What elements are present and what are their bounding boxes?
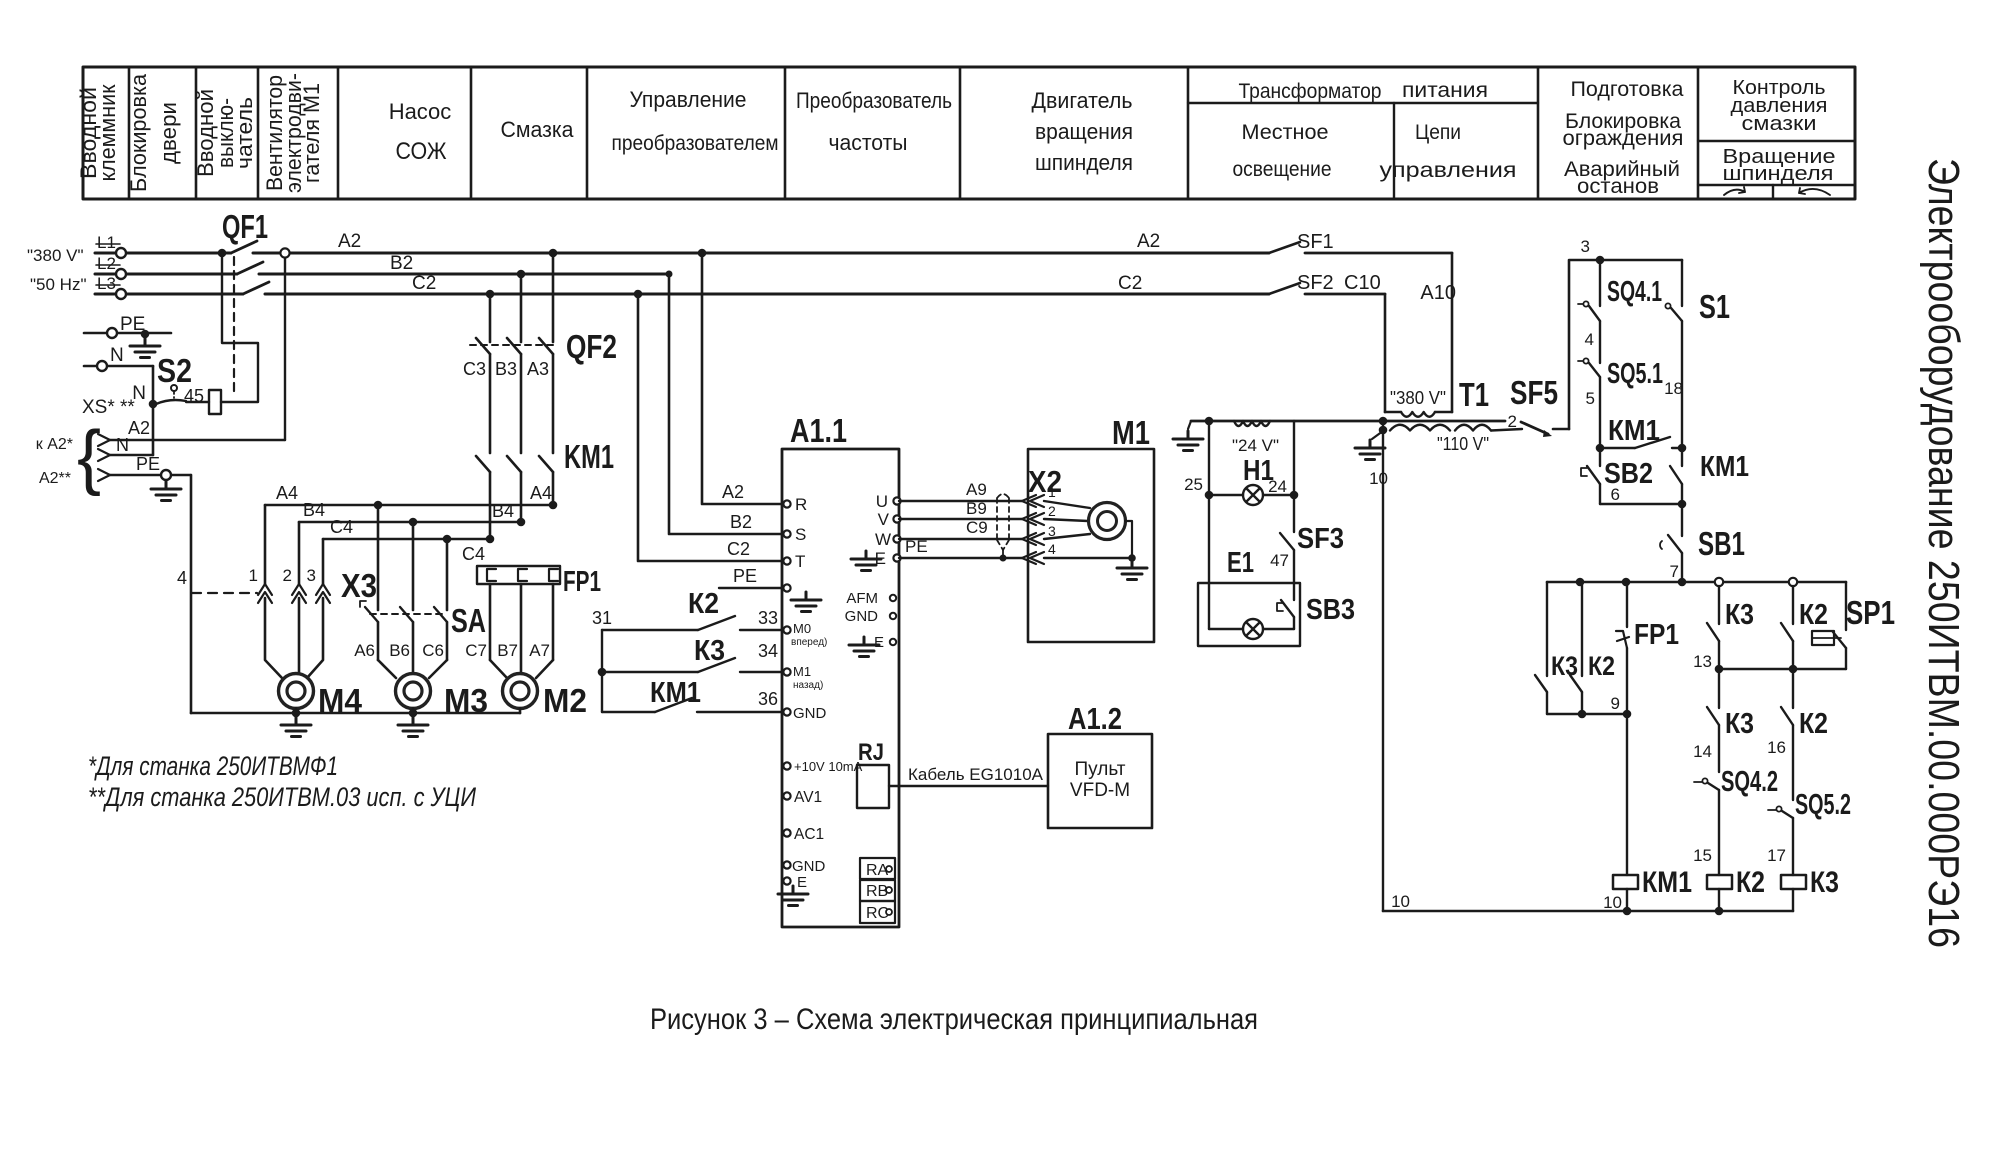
svg-text:C2: C2 — [412, 273, 436, 294]
svg-text:AFM: AFM — [846, 590, 878, 607]
svg-text:VFD-M: VFD-M — [1070, 780, 1130, 801]
svg-text:C4: C4 — [330, 517, 353, 537]
svg-text:33: 33 — [758, 608, 778, 628]
svg-text:PE: PE — [733, 566, 757, 586]
pin — [783, 557, 790, 564]
wire S1 branch — [1681, 260, 1683, 306]
svg-text:освещение: освещение — [1233, 158, 1332, 181]
wire C10 vertical — [1384, 294, 1387, 412]
breaker QF2 pole C — [476, 338, 490, 354]
breaker QF1 pole 1 — [231, 241, 257, 253]
wire FP1 branch — [1626, 582, 1628, 627]
terminal RC — [860, 901, 895, 923]
wire B6 upper — [412, 522, 415, 610]
svg-text:К2: К2 — [688, 588, 719, 620]
PE-N terminals and plug XS — [36, 248, 290, 713]
pin — [783, 530, 790, 537]
button SB2 — [1587, 466, 1600, 484]
svg-text:C4: C4 — [462, 544, 485, 564]
svg-text:24: 24 — [1268, 477, 1287, 496]
svg-text:B7: B7 — [497, 641, 518, 660]
contact FP1 thermal — [1616, 631, 1629, 648]
junction A2 to R — [698, 249, 707, 258]
svg-text:RB: RB — [866, 883, 888, 900]
svg-text:двери: двери — [156, 102, 181, 164]
svg-text:SF5: SF5 — [1510, 374, 1558, 411]
svg-text:1: 1 — [249, 566, 258, 585]
svg-text:A4: A4 — [276, 483, 298, 503]
svg-text:FP1: FP1 — [1634, 619, 1679, 651]
wire B9 (V) — [899, 518, 1022, 520]
spindle motor M1 — [899, 414, 1154, 642]
terminal RB — [860, 880, 895, 901]
wire C9 (W) — [899, 538, 1022, 540]
junction PE — [161, 470, 171, 480]
pin — [783, 762, 790, 769]
panel A1.2 box — [1048, 734, 1152, 828]
svg-text:10: 10 — [1391, 892, 1410, 911]
wire K2 parallel — [1581, 582, 1583, 676]
wire 25 down — [1208, 495, 1210, 583]
wire B7 — [520, 584, 523, 673]
pin — [783, 829, 790, 836]
svg-text:2: 2 — [283, 566, 292, 585]
svg-text:34: 34 — [758, 641, 778, 661]
switch SQ5.1 — [1589, 363, 1600, 377]
terminal L3 — [116, 289, 126, 299]
connector X2 pin 2 — [1022, 513, 1044, 525]
pin — [783, 877, 790, 884]
switch SQ4.1 — [1589, 306, 1600, 321]
svg-text:FP1: FP1 — [563, 566, 601, 598]
wire N terminal — [84, 365, 153, 368]
svg-text:B6: B6 — [389, 641, 410, 660]
connector X3 pin 3 — [316, 584, 330, 603]
plug pin PE — [98, 469, 110, 481]
switch S2 contact — [156, 400, 209, 404]
motor M1 box — [1028, 449, 1154, 642]
terminal L2 — [116, 269, 126, 279]
connector X3 pin 2 — [292, 584, 306, 603]
svg-text:10: 10 — [1369, 469, 1388, 488]
svg-text:Кабель EG1010A: Кабель EG1010A — [908, 765, 1044, 784]
cable shield drain — [1002, 550, 1004, 558]
svg-text:14: 14 — [1693, 742, 1712, 761]
wire N to plug XS — [110, 454, 153, 456]
wire A10 — [1305, 252, 1452, 255]
svg-text:PE: PE — [905, 537, 928, 556]
svg-text:SP1: SP1 — [1846, 594, 1895, 631]
svg-text:A2: A2 — [722, 482, 744, 502]
wire to X3 pin 2 — [298, 522, 301, 584]
svg-text:+10V 10mA: +10V 10mA — [794, 759, 863, 774]
contact KM1 holding — [1670, 466, 1682, 484]
SB1 actuator — [1660, 541, 1662, 549]
node N — [149, 400, 158, 409]
motor power branches — [177, 249, 617, 737]
transformer T1 24V winding — [1234, 421, 1270, 426]
wire 31 to M0 — [602, 629, 698, 631]
junction A3 tap — [549, 249, 558, 258]
contact K3 — [1535, 675, 1547, 692]
switch SF2 — [1269, 283, 1300, 294]
svg-text:Е1: Е1 — [1227, 547, 1254, 579]
junction M4 frame — [292, 709, 301, 718]
svg-text:5: 5 — [1586, 389, 1595, 408]
wire B4 — [299, 521, 521, 524]
svg-text:Насос: Насос — [389, 99, 452, 124]
svg-text:17: 17 — [1767, 846, 1786, 865]
svg-text:47: 47 — [1270, 551, 1289, 570]
FP1 heater C — [487, 569, 496, 581]
SB2 actuator — [1581, 468, 1587, 476]
ground M3 — [398, 717, 428, 737]
svg-text:Местное: Местное — [1242, 121, 1329, 144]
svg-text:C7: C7 — [465, 641, 487, 660]
plug pin A2 — [98, 434, 110, 446]
wire X3-2 to M4 — [298, 598, 301, 673]
wire QF1 undervoltage release loop — [221, 253, 258, 402]
ground at XS PE — [151, 481, 181, 501]
svg-text:SB3: SB3 — [1306, 594, 1355, 626]
svg-text:B9: B9 — [966, 499, 987, 518]
wire to KM1 coil — [1626, 714, 1628, 875]
switch SA pole 3 — [434, 607, 447, 622]
ground 24V left — [1173, 431, 1203, 451]
svg-text:Рисунок 3 – Схема электрическа: Рисунок 3 – Схема электрическая принципи… — [650, 1003, 1258, 1036]
svg-text:S1: S1 — [1699, 288, 1730, 325]
junction B3 tap — [517, 270, 526, 279]
pressure switch SP1 sensor — [1812, 631, 1834, 645]
svg-text:L3: L3 — [97, 274, 116, 293]
svg-text:R: R — [795, 495, 807, 514]
wire PE in M1 box — [1044, 557, 1132, 559]
svg-text:"110 V": "110 V" — [1437, 434, 1489, 454]
wire PE down to motor frames — [190, 475, 193, 713]
wire C2 (L3 after QF1) — [265, 293, 1269, 296]
contact K3 top — [1707, 623, 1719, 641]
contact K2 — [1570, 675, 1582, 692]
svg-text:SQ5.1: SQ5.1 — [1607, 358, 1663, 390]
svg-text:Т1: Т1 — [1459, 376, 1489, 413]
junction 110V top — [1379, 417, 1388, 426]
feed to transformer — [1269, 231, 1489, 417]
svg-text:КМ1: КМ1 — [1642, 866, 1692, 899]
svg-text:L1: L1 — [97, 233, 116, 252]
transformer secondary and lighting — [1173, 417, 1522, 911]
svg-text:B4: B4 — [303, 500, 325, 520]
control bus 10 — [1383, 910, 1793, 913]
wire N vertical — [152, 366, 155, 455]
wire PE terminal — [84, 332, 171, 335]
ground at pin E mid — [849, 637, 879, 657]
relay coil K3 — [1781, 875, 1806, 889]
wire C2 to pin T — [638, 294, 782, 561]
svg-text:6: 6 — [1611, 485, 1620, 504]
svg-text:AV1: AV1 — [794, 789, 822, 806]
svg-text:PE: PE — [136, 454, 160, 474]
svg-text:45: 45 — [184, 386, 204, 406]
svg-text:M2: M2 — [543, 682, 587, 719]
transformer T1 110V winding — [1390, 425, 1491, 431]
switch S1 — [1671, 308, 1682, 321]
svg-text:SB1: SB1 — [1698, 525, 1745, 562]
ground 110V — [1355, 440, 1385, 460]
junction A2 tap on L1 — [280, 248, 289, 257]
wire B3 — [520, 274, 523, 342]
svg-text:гателя М1: гателя М1 — [299, 83, 324, 183]
svg-text:GND: GND — [845, 608, 879, 625]
svg-text:К2: К2 — [1588, 651, 1615, 681]
wire L1 — [95, 252, 231, 255]
svg-text:XS* **: XS* ** — [82, 397, 135, 418]
svg-text:Цепи: Цепи — [1415, 121, 1461, 144]
svg-text:чатель: чатель — [232, 97, 257, 169]
svg-text:Управление: Управление — [630, 87, 747, 112]
wire motor frame bus — [191, 712, 520, 715]
wire 31 vertical — [601, 630, 603, 712]
lamp E1 — [1243, 619, 1263, 639]
ground at pin E right — [851, 551, 881, 571]
svg-text:RA: RA — [866, 862, 889, 879]
svg-text:Двигатель: Двигатель — [1032, 88, 1133, 113]
wire 6 — [1600, 503, 1682, 505]
svg-text:К2: К2 — [1736, 866, 1765, 899]
breaker QF2 pole A — [539, 338, 553, 354]
connector X2 pin 1 — [1022, 495, 1044, 507]
svg-text:15: 15 — [1693, 846, 1712, 865]
svg-text:N: N — [116, 435, 129, 455]
svg-text:Трансформатор: Трансформатор — [1239, 80, 1382, 103]
switch SA pole 1 — [365, 607, 378, 622]
contactor KM1 pole B — [507, 456, 521, 472]
contactor KM1 pole A — [539, 456, 553, 472]
wire PE — [899, 557, 1022, 559]
svg-text:4: 4 — [177, 568, 187, 588]
cw rotation arrow — [1724, 187, 1745, 195]
svg-text:A7: A7 — [529, 641, 550, 660]
svg-text:V: V — [878, 510, 890, 529]
svg-text:4: 4 — [1585, 330, 1594, 349]
svg-text:B2: B2 — [730, 512, 752, 532]
svg-text:10: 10 — [1603, 893, 1622, 912]
svg-text:Подготовка: Подготовка — [1571, 78, 1684, 101]
wire A3 — [552, 253, 555, 342]
wire A10 vertical — [1451, 253, 1454, 412]
svg-text:3: 3 — [307, 566, 316, 585]
connector X2 pin 4 — [1022, 552, 1044, 564]
contact K3 lower — [1707, 707, 1719, 725]
svg-text:GND: GND — [793, 705, 827, 722]
svg-text:К2: К2 — [1799, 708, 1828, 740]
svg-text:36: 36 — [758, 689, 778, 709]
svg-text:B2: B2 — [390, 253, 413, 274]
svg-text:3: 3 — [1581, 237, 1590, 256]
svg-text:N: N — [110, 345, 124, 366]
pin — [783, 500, 790, 507]
terminal L1 — [116, 248, 126, 258]
svg-text:К3: К3 — [694, 635, 725, 667]
junction C3 tap — [486, 290, 495, 299]
SB3 actuator — [1277, 603, 1283, 611]
switch SA pole 2 — [400, 607, 413, 622]
wire K3 chain — [1718, 586, 1720, 624]
svg-text:A4: A4 — [530, 483, 552, 503]
ground in M1 box — [1117, 560, 1147, 580]
junction PE-earth — [141, 330, 150, 339]
corner B2 — [666, 271, 673, 278]
wire 9 — [1547, 713, 1627, 715]
svg-text:S: S — [795, 525, 806, 544]
svg-text:СОЖ: СОЖ — [396, 138, 447, 165]
junction QF1 trip tap — [218, 249, 227, 258]
wire A9 (U) — [899, 500, 1022, 502]
wire PE to plug XS — [110, 474, 191, 476]
switch SF3 — [1280, 533, 1294, 550]
cable shield marker — [997, 494, 1009, 550]
svg-text:М1: М1 — [1112, 414, 1150, 451]
svg-text:13: 13 — [1693, 652, 1712, 671]
svg-text:А1.2: А1.2 — [1068, 701, 1122, 736]
junction 110V left — [1379, 426, 1388, 435]
svg-text:S2: S2 — [157, 352, 192, 389]
wire A2 to plug XS — [110, 439, 285, 441]
svg-text:7: 7 — [1670, 562, 1679, 581]
svg-text:Электрооборудование 250ИТВМ.00: Электрооборудование 250ИТВМ.00.000РЭ16 — [1919, 158, 1968, 948]
svg-text:А2**: А2** — [39, 470, 71, 487]
contact K2 — [698, 616, 735, 630]
svg-text:RJ: RJ — [858, 739, 884, 766]
ground at pin PE — [791, 592, 821, 612]
motor M1 winding — [1089, 503, 1126, 540]
node 3 — [1596, 256, 1605, 265]
wire K2 chain — [1792, 586, 1794, 624]
svg-text:Пульт: Пульт — [1075, 759, 1126, 780]
svg-text:останов: останов — [1577, 175, 1659, 198]
svg-text:B4: B4 — [492, 501, 514, 521]
converter A1.1 box — [782, 449, 899, 927]
wire SP1 branch — [1845, 582, 1847, 630]
svg-text:К3: К3 — [1551, 651, 1578, 681]
svg-text:SQ5.2: SQ5.2 — [1795, 789, 1851, 821]
relay logic — [1383, 578, 1895, 916]
svg-text:SQ4.2: SQ4.2 — [1721, 766, 1778, 798]
svg-text:A2: A2 — [338, 231, 361, 252]
svg-text:16: 16 — [1767, 738, 1786, 757]
svg-text:L2: L2 — [97, 254, 116, 273]
ground at PE terminal — [130, 338, 160, 358]
breaker QF2 linkage (dashed) — [470, 344, 558, 346]
svg-text:U: U — [876, 492, 888, 511]
wire PE to converter — [719, 587, 782, 589]
svg-text:{: { — [77, 417, 101, 497]
svg-text:М0: М0 — [793, 621, 811, 636]
svg-text:К2: К2 — [1799, 599, 1828, 631]
svg-text:ограждения: ограждения — [1563, 127, 1684, 150]
svg-text:А1.1: А1.1 — [790, 412, 847, 449]
motor M2 — [503, 674, 538, 709]
switch SF1 — [1269, 242, 1300, 253]
control bus 7 — [1547, 581, 1846, 584]
svg-text:К3: К3 — [1810, 866, 1839, 899]
switch SA linkage (dashed) — [370, 613, 445, 615]
pin — [783, 708, 790, 715]
svg-text:4: 4 — [1048, 541, 1056, 557]
wire to SQ4.1 — [1599, 260, 1601, 306]
wire A2 tap vertical — [284, 258, 286, 440]
svg-text:C9: C9 — [966, 518, 988, 537]
svg-text:назад): назад) — [793, 680, 823, 691]
contact K2 top — [1781, 623, 1793, 641]
svg-text:"50 Hz": "50 Hz" — [30, 275, 86, 294]
svg-text:"380 V": "380 V" — [1390, 388, 1446, 408]
wire A2 (L1 after QF1) — [253, 252, 1269, 255]
svg-text:Смазка: Смазка — [501, 117, 575, 142]
wire C4 — [323, 538, 490, 541]
switch SB3 — [1281, 600, 1294, 617]
wire to X3 pin 1 — [264, 505, 267, 584]
svg-text:QF2: QF2 — [566, 328, 617, 365]
svg-text:SQ4.1: SQ4.1 — [1607, 276, 1662, 308]
contactor KM1 pole C — [476, 456, 490, 472]
wire cable EG1010A — [889, 785, 1048, 787]
FP1 heater A — [549, 569, 558, 581]
svg-text:К3: К3 — [1725, 599, 1754, 631]
svg-text:*Для станка 250ИТВМФ1: *Для станка 250ИТВМФ1 — [88, 751, 338, 781]
motor M4 — [279, 674, 314, 709]
wire 24V right leg — [1293, 421, 1295, 495]
breaker QF2 pole B — [507, 338, 521, 354]
svg-text:A2: A2 — [1137, 231, 1160, 252]
svg-text:М1: М1 — [793, 664, 811, 679]
pin — [783, 626, 790, 633]
svg-text:QF1: QF1 — [222, 208, 268, 245]
svg-text:T: T — [795, 552, 805, 571]
svg-text:C2: C2 — [1118, 273, 1142, 294]
wire M1 frame — [1125, 521, 1132, 558]
function-zone header table — [76, 67, 1855, 199]
transformer T1 primary winding — [1401, 412, 1435, 417]
svg-text:C2: C2 — [727, 539, 750, 559]
svg-text:питания: питания — [1402, 79, 1488, 102]
wire 4 (dashed) — [192, 592, 257, 594]
switch SF5 — [1521, 422, 1548, 434]
contact KM1 — [655, 698, 692, 712]
wire 10 — [1382, 430, 1384, 911]
FP1 heater B — [518, 569, 527, 581]
wire L2 — [95, 273, 237, 276]
contact SP1 — [1833, 632, 1846, 648]
wire C10 — [1305, 293, 1385, 296]
svg-text:C6: C6 — [422, 641, 444, 660]
wire 3 — [1569, 260, 1682, 429]
svg-text:9: 9 — [1611, 694, 1620, 713]
svg-text:смазки: смазки — [1742, 113, 1817, 135]
svg-text:C10: C10 — [1344, 272, 1381, 294]
wire A7 — [552, 584, 555, 660]
ccw rotation arrow — [1799, 188, 1830, 195]
svg-text:GND: GND — [792, 858, 826, 875]
pin — [783, 668, 790, 675]
wire to M1 pin — [602, 671, 698, 673]
junction M3 frame — [409, 709, 418, 718]
svg-text:Е: Е — [797, 874, 807, 891]
lamp H1 — [1243, 485, 1263, 505]
svg-text:**Для станка 250ИТВМ.03 исп. с: **Для станка 250ИТВМ.03 исп. с УЦИ — [88, 782, 477, 812]
motor M3 — [396, 674, 431, 709]
svg-text:3: 3 — [1048, 523, 1056, 539]
svg-text:X3: X3 — [341, 567, 377, 604]
